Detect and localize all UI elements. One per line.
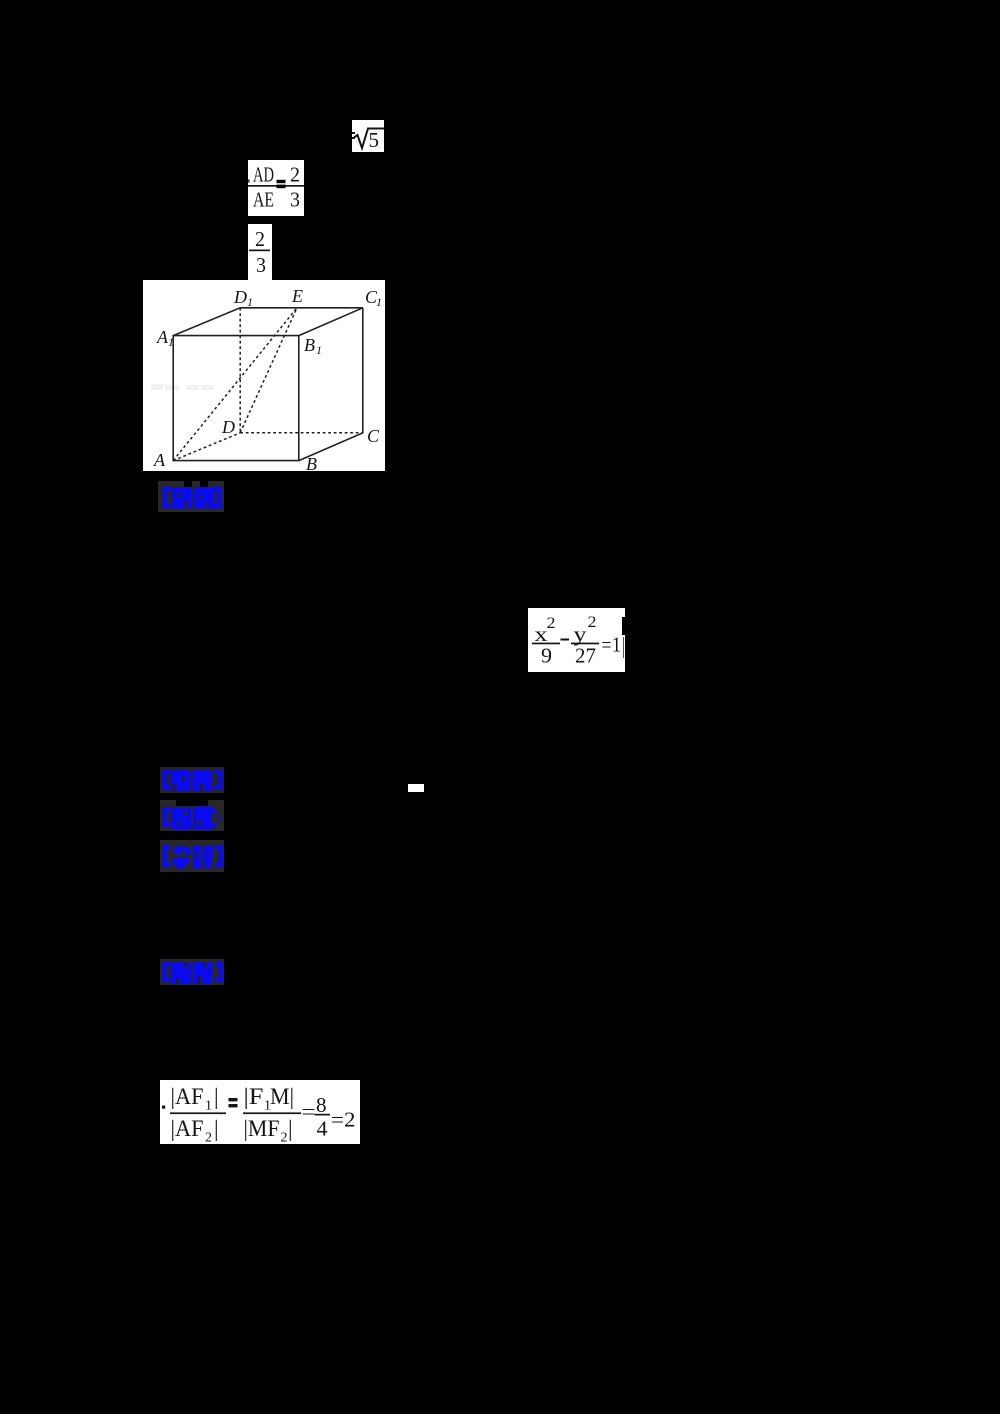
svg-text:=2: =2 bbox=[331, 1108, 356, 1132]
svg-text:|MF: |MF bbox=[244, 1116, 280, 1141]
svg-text:|: | bbox=[214, 1084, 219, 1109]
svg-text:8: 8 bbox=[316, 1093, 327, 1117]
svg-text:1: 1 bbox=[376, 295, 382, 309]
svg-text:|F: |F bbox=[244, 1084, 264, 1109]
svg-text:1: 1 bbox=[247, 295, 253, 309]
svg-text:|AF: |AF bbox=[171, 1116, 204, 1141]
svg-text:|: | bbox=[214, 1116, 219, 1141]
svg-text:27: 27 bbox=[575, 644, 596, 668]
svg-text:9: 9 bbox=[541, 644, 552, 668]
svg-text:1: 1 bbox=[612, 633, 621, 657]
svg-text:y: y bbox=[574, 622, 588, 646]
svg-text:3: 3 bbox=[256, 253, 266, 277]
svg-text:2: 2 bbox=[281, 1131, 288, 1145]
svg-text:B: B bbox=[304, 335, 315, 355]
svg-text:C: C bbox=[367, 426, 380, 446]
svg-text:E: E bbox=[291, 286, 303, 306]
svg-text:2: 2 bbox=[547, 615, 556, 632]
svg-text:B: B bbox=[306, 454, 317, 471]
svg-text:M|: M| bbox=[270, 1084, 294, 1109]
svg-text:2: 2 bbox=[588, 614, 597, 631]
svg-text:5: 5 bbox=[369, 128, 380, 152]
svg-text:4: 4 bbox=[317, 1117, 329, 1141]
svg-text:|AF: |AF bbox=[171, 1084, 204, 1109]
svg-text:3: 3 bbox=[290, 188, 300, 212]
svg-text:D: D bbox=[233, 287, 247, 307]
svg-text:AE: AE bbox=[253, 188, 274, 212]
svg-text:1: 1 bbox=[205, 1099, 212, 1114]
svg-text:AD: AD bbox=[253, 163, 274, 187]
svg-text:1: 1 bbox=[168, 335, 174, 349]
svg-text:=: = bbox=[302, 1100, 316, 1124]
svg-text:1: 1 bbox=[316, 343, 322, 357]
svg-text:A: A bbox=[153, 450, 166, 470]
svg-text:2: 2 bbox=[205, 1131, 212, 1145]
svg-text:D: D bbox=[221, 417, 235, 437]
svg-text:=: = bbox=[602, 633, 612, 657]
svg-text:|: | bbox=[288, 1116, 293, 1141]
svg-text:2: 2 bbox=[255, 227, 265, 251]
svg-text:2: 2 bbox=[290, 163, 300, 187]
